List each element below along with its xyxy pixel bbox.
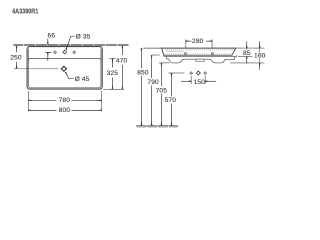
- svg-text:800: 800: [59, 107, 71, 114]
- svg-text:705: 705: [156, 88, 168, 95]
- svg-text:280: 280: [192, 38, 204, 45]
- svg-text:160: 160: [254, 53, 266, 60]
- svg-text:780: 780: [59, 97, 71, 104]
- svg-text:Ø 35: Ø 35: [76, 33, 91, 40]
- svg-text:85: 85: [243, 50, 251, 57]
- svg-text:150: 150: [194, 79, 206, 86]
- svg-text:Ø 45: Ø 45: [75, 76, 90, 83]
- svg-text:850: 850: [137, 69, 149, 76]
- svg-text:470: 470: [116, 58, 128, 65]
- svg-text:250: 250: [10, 54, 22, 61]
- svg-text:325: 325: [107, 70, 119, 77]
- svg-text:790: 790: [147, 79, 159, 86]
- svg-text:66: 66: [48, 33, 56, 40]
- svg-text:4A3380R1: 4A3380R1: [12, 7, 38, 16]
- svg-text:570: 570: [165, 97, 177, 104]
